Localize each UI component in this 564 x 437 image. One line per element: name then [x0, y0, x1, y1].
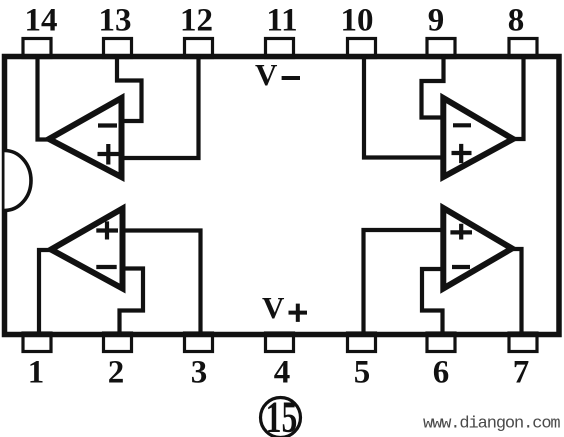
wire pin6 to U1d inverting input: [422, 269, 444, 337]
U1c inverting input minus sign: [96, 265, 116, 269]
wire pin5 to U1d non-inverting input: [364, 230, 446, 337]
svg-text:6: 6: [433, 355, 450, 391]
op-amp U1d (bottom-right, points right): [443, 208, 512, 289]
pin 1 stub: [23, 333, 51, 352]
pin 13 stub: [104, 39, 132, 58]
wire pin14 to U1a output: [38, 54, 53, 140]
svg-text:14: 14: [25, 3, 58, 39]
U1b inverting input minus sign: [453, 123, 471, 127]
pin 5 stub: [348, 333, 376, 352]
svg-text:3: 3: [191, 355, 208, 391]
pin 11 stub: [266, 39, 294, 58]
svg-text:5: 5: [354, 355, 371, 391]
wire pin12 to U1a non-inverting input: [122, 54, 199, 158]
wire pin2 to U1c inverting input: [120, 269, 144, 338]
wire pin8 to U1b output: [510, 54, 524, 139]
svg-text:4: 4: [274, 355, 291, 391]
wire pin10 to U1b non-inverting input: [364, 54, 445, 158]
pin 12 stub: [185, 39, 213, 58]
svg-text:8: 8: [508, 3, 525, 39]
U1c non-inverting input plus sign: [96, 221, 118, 239]
svg-text:15: 15: [266, 394, 298, 437]
pin 7 stub: [509, 333, 537, 352]
wire pin9 to U1b inverting input: [422, 54, 445, 118]
pin 9 stub: [427, 39, 455, 58]
svg-text:1: 1: [28, 355, 45, 391]
op-amp U1c (bottom-left, points left): [51, 209, 123, 289]
index notch: [5, 151, 32, 211]
pin 2 stub: [104, 333, 132, 352]
op-amp U1b (top-right, points right): [443, 98, 513, 177]
pin 8 stub: [509, 39, 537, 58]
op-amp U1a (top-left, points left): [49, 98, 122, 177]
svg-text:9: 9: [428, 3, 445, 39]
U1a inverting input minus sign: [98, 123, 117, 127]
wire pin1 to U1c output: [39, 250, 54, 337]
svg-text:12: 12: [180, 3, 213, 39]
U1b non-inverting input plus sign: [452, 144, 472, 163]
figure number circle: [261, 398, 301, 437]
U1a non-inverting input plus sign: [98, 144, 120, 165]
pin 10 stub: [348, 39, 376, 58]
svg-text:V: V: [255, 57, 278, 92]
IC body outline: [5, 57, 560, 335]
svg-text:www.diangon.com: www.diangon.com: [423, 415, 560, 434]
wire pin13 to U1a inverting input: [117, 54, 142, 121]
svg-text:11: 11: [266, 3, 297, 39]
svg-text:7: 7: [513, 355, 530, 391]
U1d non-inverting input plus sign: [450, 224, 472, 240]
svg-text:V: V: [262, 290, 285, 325]
pin 6 stub: [427, 333, 455, 352]
svg-text:13: 13: [99, 3, 132, 39]
pin 4 stub: [266, 333, 294, 352]
wire pin3 to U1c non-inverting input: [123, 231, 201, 338]
U1d inverting input minus sign: [452, 265, 470, 269]
wire pin7 to U1d output: [509, 249, 522, 337]
svg-text:2: 2: [108, 355, 125, 391]
pin 3 stub: [185, 333, 213, 352]
svg-text:10: 10: [341, 3, 374, 39]
pin 14 stub: [23, 39, 51, 58]
